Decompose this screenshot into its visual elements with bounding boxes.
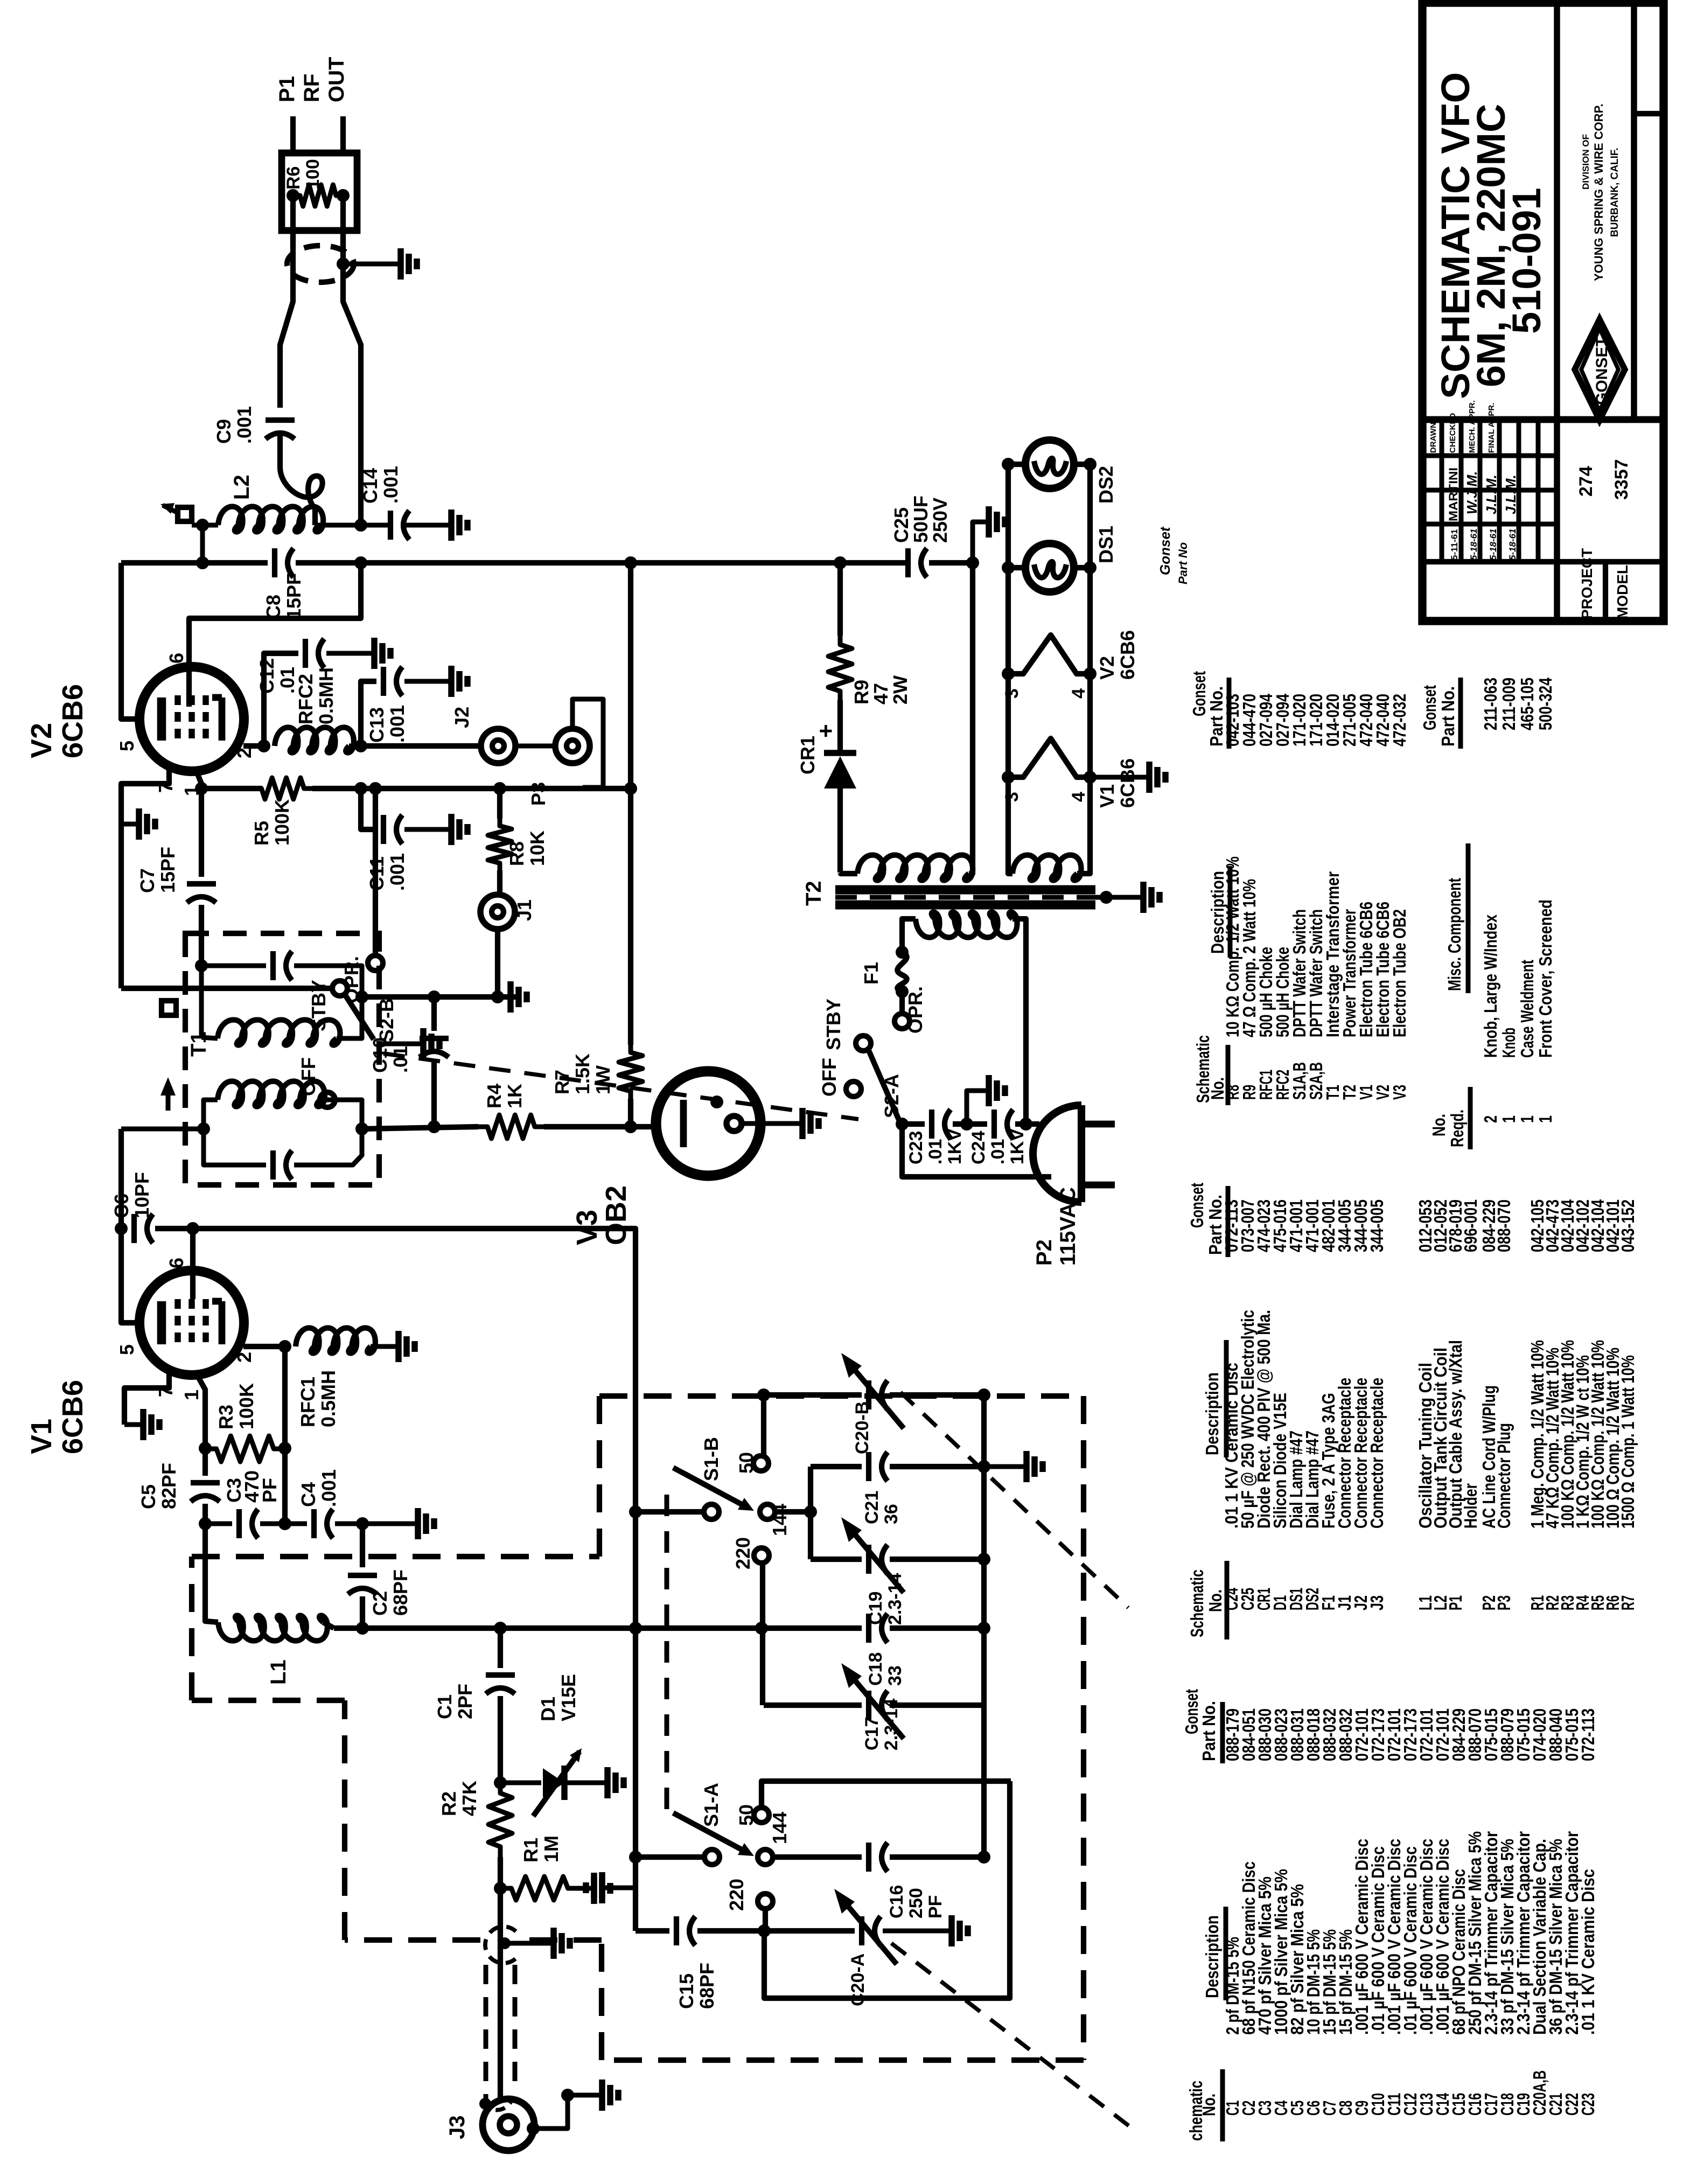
svg-text:L2: L2 (230, 475, 254, 500)
svg-text:47: 47 (870, 683, 892, 704)
svg-text:5: 5 (116, 741, 138, 751)
svg-text:1: 1 (1517, 1115, 1537, 1123)
svg-text:50: 50 (735, 1452, 757, 1474)
svg-text:5-18-61: 5-18-61 (1507, 528, 1518, 560)
svg-text:Case Weldment: Case Weldment (1517, 960, 1537, 1058)
svg-text:CR1: CR1 (797, 736, 819, 774)
svg-text:R8: R8 (506, 841, 528, 866)
svg-text:274: 274 (1576, 466, 1596, 497)
svg-text:1500 Ω Comp. 1 Watt 10%: 1500 Ω Comp. 1 Watt 10% (1618, 1355, 1638, 1529)
svg-text:10PF: 10PF (131, 1172, 153, 1218)
svg-text:2.3-14: 2.3-14 (881, 1699, 902, 1750)
svg-text:T2: T2 (802, 881, 826, 906)
svg-text:465-105: 465-105 (1517, 678, 1537, 730)
svg-text:2: 2 (1481, 1115, 1500, 1123)
svg-text:MODEL: MODEL (1614, 565, 1631, 619)
svg-text:C5: C5 (137, 1484, 159, 1509)
svg-text:1M: 1M (540, 1836, 562, 1862)
svg-text:Gonset: Gonset (1157, 526, 1173, 575)
svg-text:MECH. APPR.: MECH. APPR. (1468, 400, 1477, 453)
svg-text:Knob, Large W/Index: Knob, Large W/Index (1481, 914, 1500, 1058)
svg-text:220: 220 (725, 1879, 748, 1911)
svg-text:PF: PF (925, 1895, 946, 1918)
svg-text:6: 6 (165, 653, 187, 664)
svg-text:+: + (813, 724, 839, 738)
svg-text:D1: D1 (537, 1697, 559, 1721)
svg-text:J3: J3 (1367, 1595, 1387, 1610)
svg-text:F1: F1 (860, 962, 882, 985)
svg-text:P1: P1 (1445, 1595, 1465, 1610)
svg-text:1: 1 (1499, 1115, 1519, 1123)
svg-text:S2-A: S2-A (881, 1074, 903, 1118)
svg-text:C6: C6 (110, 1194, 132, 1218)
svg-text:5: 5 (116, 1344, 138, 1355)
svg-text:R9: R9 (850, 680, 872, 704)
svg-text:P3: P3 (1494, 1595, 1514, 1610)
svg-text:4: 4 (1069, 688, 1089, 699)
svg-text:GONSET: GONSET (1593, 337, 1611, 405)
svg-text:C18: C18 (865, 1652, 886, 1686)
svg-text:V2: V2 (25, 723, 58, 758)
svg-text:.001: .001 (233, 406, 255, 444)
svg-text:YOUNG SPRING & WIRE CORP.: YOUNG SPRING & WIRE CORP. (1592, 103, 1605, 281)
svg-text:115VAC: 115VAC (1056, 1187, 1080, 1266)
svg-text:1: 1 (1535, 1115, 1555, 1123)
svg-text:Electron Tube OB2: Electron Tube OB2 (1389, 909, 1409, 1037)
svg-text:C4: C4 (297, 1482, 319, 1507)
svg-text:C14: C14 (359, 468, 381, 504)
svg-text:1: 1 (180, 1390, 202, 1400)
svg-text:V3: V3 (1389, 1085, 1409, 1100)
svg-text:.01: .01 (389, 1046, 411, 1073)
svg-text:DS2: DS2 (1095, 466, 1117, 504)
svg-text:Part No: Part No (1176, 542, 1190, 584)
svg-text:2: 2 (233, 748, 255, 758)
svg-text:No.: No. (1205, 1589, 1225, 1612)
svg-text:144: 144 (769, 1812, 791, 1844)
svg-text:Connector Plug: Connector Plug (1494, 1423, 1514, 1529)
svg-text:C21: C21 (862, 1491, 882, 1524)
svg-text:220: 220 (732, 1537, 754, 1569)
svg-text:DS1: DS1 (1095, 526, 1117, 563)
svg-text:RF: RF (300, 74, 324, 102)
svg-text:STBY: STBY (822, 999, 844, 1050)
svg-text:C23: C23 (1578, 2093, 1598, 2116)
svg-text:DRAWN: DRAWN (1429, 422, 1438, 453)
svg-text:3357: 3357 (1611, 459, 1632, 500)
svg-text:V2: V2 (1096, 656, 1118, 680)
svg-text:6CB6: 6CB6 (57, 1380, 89, 1454)
svg-text:DIVISION OF: DIVISION OF (1581, 134, 1591, 190)
svg-text:C23: C23 (906, 1131, 926, 1164)
svg-text:R2: R2 (438, 1791, 460, 1816)
svg-text:6CB6: 6CB6 (1116, 758, 1139, 808)
svg-text:50UF: 50UF (910, 496, 932, 543)
svg-text:J.L.M.: J.L.M. (1503, 475, 1519, 514)
svg-text:250V: 250V (929, 498, 951, 543)
svg-text:PROJECT: PROJECT (1579, 548, 1595, 619)
svg-text:C9: C9 (213, 419, 235, 444)
svg-text:R5: R5 (250, 821, 273, 846)
svg-text:Part No.: Part No. (1199, 1701, 1219, 1761)
svg-text:No.: No. (1429, 1114, 1449, 1136)
svg-text:472-032: 472-032 (1389, 694, 1409, 746)
svg-text:P2: P2 (1032, 1239, 1056, 1266)
svg-text:V1: V1 (25, 1419, 58, 1454)
svg-text:.01: .01 (988, 1139, 1008, 1164)
svg-text:36: 36 (881, 1504, 902, 1524)
svg-text:Gonset: Gonset (1187, 1183, 1207, 1228)
svg-text:1.5K: 1.5K (571, 1053, 593, 1094)
svg-text:Holder: Holder (1461, 1483, 1481, 1529)
svg-text:S2-B: S2-B (375, 998, 397, 1042)
svg-text:C16: C16 (886, 1885, 907, 1918)
svg-text:3: 3 (1002, 792, 1022, 802)
svg-text:J3: J3 (445, 2116, 469, 2140)
svg-text:15PF: 15PF (283, 573, 305, 619)
svg-text:6CB6: 6CB6 (1116, 630, 1139, 680)
svg-text:072-113: 072-113 (1578, 1708, 1598, 1761)
svg-text:2W: 2W (889, 675, 911, 704)
svg-text:0.5MH: 0.5MH (317, 1370, 339, 1427)
svg-text:R7: R7 (551, 1070, 573, 1094)
svg-text:0.5MH: 0.5MH (315, 667, 337, 724)
svg-text:R7: R7 (1618, 1595, 1638, 1610)
svg-text:OPR.: OPR. (904, 986, 926, 1034)
svg-text:Part No.: Part No. (1438, 686, 1458, 746)
svg-text:OB2: OB2 (600, 1185, 632, 1245)
svg-text:J2: J2 (451, 707, 473, 728)
svg-text:10K: 10K (526, 831, 548, 866)
svg-text:100: 100 (303, 159, 323, 190)
svg-text:R1: R1 (520, 1838, 542, 1862)
svg-text:4: 4 (1069, 792, 1089, 802)
svg-text:C12: C12 (256, 658, 278, 694)
svg-text:1KV: 1KV (1007, 1129, 1028, 1164)
svg-text:R4: R4 (483, 1084, 505, 1108)
svg-text:.001: .001 (386, 853, 408, 891)
svg-text:CHECKED: CHECKED (1448, 413, 1457, 453)
svg-text:No.: No. (1207, 1077, 1227, 1100)
svg-text:W.J.M.: W.J.M. (1464, 471, 1480, 514)
svg-text:P3: P3 (527, 782, 549, 806)
svg-text:043-152: 043-152 (1618, 1199, 1638, 1252)
svg-text:5-18-61: 5-18-61 (1469, 528, 1479, 560)
svg-text:OFF: OFF (297, 1057, 319, 1096)
svg-text:500-324: 500-324 (1535, 677, 1555, 730)
svg-text:088-070: 088-070 (1494, 1199, 1514, 1252)
svg-text:C1: C1 (434, 1694, 456, 1719)
svg-text:6: 6 (165, 1258, 187, 1268)
svg-text:68PF: 68PF (389, 1569, 411, 1616)
svg-text:47K: 47K (458, 1781, 480, 1816)
svg-text:211-063: 211-063 (1481, 678, 1500, 730)
svg-text:BURBANK, CALIF.: BURBANK, CALIF. (1609, 148, 1621, 237)
svg-text:P1: P1 (275, 76, 299, 102)
svg-text:Gonset: Gonset (1420, 685, 1440, 730)
svg-text:No.: No. (1199, 2094, 1219, 2116)
svg-text:Description: Description (1202, 1915, 1222, 1998)
svg-text:2: 2 (233, 1352, 255, 1363)
svg-text:FINAL APPR.: FINAL APPR. (1487, 403, 1496, 453)
svg-text:Reqd.: Reqd. (1447, 1110, 1467, 1147)
svg-text:MARTINI: MARTINI (1447, 467, 1460, 521)
svg-text:STBY: STBY (308, 980, 330, 1031)
svg-text:1K: 1K (504, 1084, 526, 1108)
svg-text:L1: L1 (267, 1659, 290, 1685)
svg-text:C13: C13 (366, 707, 388, 743)
svg-text:OUT: OUT (325, 57, 348, 102)
svg-text:OFF: OFF (818, 1058, 840, 1097)
svg-text:S1-A: S1-A (700, 1783, 722, 1827)
svg-text:5-11-61: 5-11-61 (1449, 529, 1459, 560)
svg-text:510-091: 510-091 (1504, 187, 1549, 334)
svg-text:C2: C2 (369, 1591, 391, 1616)
svg-text:Description: Description (1202, 1372, 1222, 1455)
svg-text:C15: C15 (675, 1973, 697, 2009)
svg-text:144: 144 (769, 1504, 791, 1536)
svg-text:R6: R6 (283, 166, 304, 190)
svg-text:3: 3 (1002, 688, 1022, 699)
svg-text:C7: C7 (136, 868, 158, 893)
svg-text:.01: .01 (925, 1139, 946, 1164)
svg-text:Description: Description (1207, 871, 1227, 954)
svg-text:Schematic: Schematic (1187, 1569, 1207, 1637)
svg-text:.001: .001 (380, 466, 402, 504)
svg-text:.01 1 KV Ceramic Disc: .01 1 KV Ceramic Disc (1578, 1869, 1598, 2035)
svg-text:C25: C25 (890, 507, 912, 543)
svg-text:PF: PF (259, 1478, 281, 1503)
svg-text:C24: C24 (968, 1131, 989, 1164)
svg-text:100K: 100K (235, 1383, 257, 1429)
svg-text:Front Cover, Screened: Front Cover, Screened (1535, 899, 1555, 1058)
svg-text:RFC1: RFC1 (297, 1377, 319, 1427)
svg-text:S1-B: S1-B (700, 1437, 722, 1481)
svg-text:Knob: Knob (1499, 1028, 1519, 1058)
svg-text:Part No.: Part No. (1206, 686, 1226, 746)
svg-text:C20-B: C20-B (852, 1401, 872, 1454)
svg-text:696-001: 696-001 (1461, 1199, 1481, 1252)
svg-text:344-005: 344-005 (1367, 1199, 1387, 1252)
svg-text:R3: R3 (215, 1405, 237, 1429)
svg-text:1KV: 1KV (945, 1129, 965, 1164)
svg-text:250: 250 (906, 1888, 926, 1918)
svg-text:.001: .001 (386, 705, 408, 743)
svg-text:RFC2: RFC2 (295, 674, 317, 724)
svg-text:2PF: 2PF (454, 1684, 476, 1719)
svg-text:211-009: 211-009 (1499, 678, 1519, 730)
svg-text:100K: 100K (271, 799, 293, 846)
svg-text:T1: T1 (187, 1031, 211, 1057)
svg-text:33: 33 (885, 1665, 905, 1686)
svg-text:.001: .001 (318, 1469, 340, 1507)
svg-text:82PF: 82PF (158, 1463, 180, 1509)
svg-text:J.L.M.: J.L.M. (1483, 475, 1499, 514)
svg-text:C17: C17 (862, 1717, 882, 1750)
svg-text:6CB6: 6CB6 (57, 684, 89, 758)
svg-text:J1: J1 (513, 899, 535, 921)
svg-text:V15E: V15E (557, 1674, 579, 1721)
svg-text:V1: V1 (1096, 784, 1118, 808)
svg-text:1W: 1W (592, 1065, 614, 1094)
svg-text:5-18-61: 5-18-61 (1488, 528, 1498, 560)
svg-text:Connector Receptacle: Connector Receptacle (1367, 1378, 1387, 1529)
svg-text:15PF: 15PF (157, 847, 179, 893)
svg-text:68PF: 68PF (696, 1963, 718, 2009)
svg-text:Part No.: Part No. (1205, 1195, 1225, 1255)
svg-text:Misc. Component: Misc. Component (1444, 878, 1464, 991)
